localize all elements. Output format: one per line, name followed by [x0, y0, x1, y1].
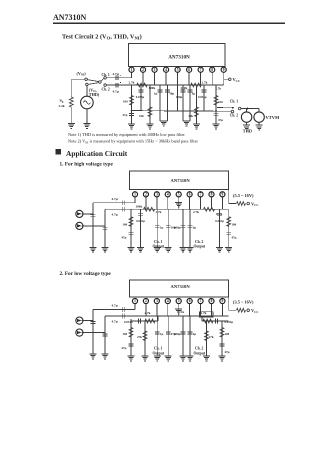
svg-text:2: 2 [145, 193, 147, 197]
svg-text:4.7μ: 4.7μ [112, 304, 118, 308]
svg-text:10k: 10k [188, 114, 193, 118]
svg-text:1μ: 1μ [193, 332, 197, 336]
svg-text:1k: 1k [181, 310, 185, 314]
svg-text:2.7k: 2.7k [145, 311, 151, 315]
svg-text:3: 3 [156, 193, 158, 197]
svg-text:Test Circuit 2 (VO, THD, VNI): Test Circuit 2 (VO, THD, VNI) [62, 33, 142, 40]
svg-text:Ch. 2: Ch. 2 [195, 240, 204, 244]
svg-text:0.033μ: 0.033μ [136, 219, 145, 223]
svg-text:VCC: VCC [251, 201, 259, 207]
svg-text:Ch. 1: Ch. 1 [154, 347, 163, 351]
svg-text:2.7k: 2.7k [202, 80, 208, 84]
svg-text:AN7310N: AN7310N [171, 284, 191, 289]
svg-text:3: 3 [156, 299, 158, 303]
svg-text:4.7μ: 4.7μ [113, 89, 119, 93]
svg-text:6: 6 [189, 299, 191, 303]
svg-text:Ch. 1: Ch. 1 [154, 240, 163, 244]
svg-text:4: 4 [165, 68, 167, 72]
svg-text:4.7μ: 4.7μ [112, 213, 118, 217]
svg-text:Rg: Rg [60, 99, 64, 104]
svg-text:100μ: 100μ [174, 332, 181, 336]
svg-text:(5.5 ~ 16V): (5.5 ~ 16V) [233, 193, 254, 198]
svg-text:100: 100 [218, 100, 223, 104]
svg-text:100k: 100k [136, 204, 143, 208]
svg-text:8: 8 [211, 68, 213, 72]
svg-text:1μ: 1μ [160, 225, 164, 229]
svg-text:4: 4 [167, 193, 169, 197]
svg-text:7: 7 [200, 68, 202, 72]
svg-text:100: 100 [225, 332, 230, 336]
svg-text:1μ: 1μ [192, 92, 196, 96]
svg-text:VTVM: VTVM [266, 115, 281, 120]
svg-text:0.033μ: 0.033μ [136, 95, 145, 99]
svg-text:THD: THD [243, 128, 252, 133]
svg-text:47μ: 47μ [122, 235, 127, 239]
svg-text:100k: 100k [149, 86, 156, 90]
svg-text:0.033μ: 0.033μ [225, 320, 234, 324]
svg-text:6: 6 [188, 68, 190, 72]
svg-text:4.7μ: 4.7μ [112, 319, 118, 323]
svg-text:Ch. 2: Ch. 2 [102, 88, 110, 92]
svg-text:1: 1 [134, 299, 136, 303]
svg-text:47μ: 47μ [122, 346, 127, 350]
svg-text:10k: 10k [139, 114, 144, 118]
svg-text:0.033μ: 0.033μ [124, 320, 133, 324]
svg-text:9: 9 [223, 68, 225, 72]
svg-text:Application Circuit: Application Circuit [66, 149, 128, 158]
svg-text:4.7μ: 4.7μ [113, 72, 119, 76]
svg-text:100μ: 100μ [176, 95, 183, 99]
svg-text:100: 100 [123, 222, 128, 226]
svg-text:2.7k: 2.7k [193, 210, 199, 214]
svg-text:6: 6 [189, 193, 191, 197]
svg-text:47μ: 47μ [218, 118, 223, 122]
svg-text:(3.5 ~ 16V): (3.5 ~ 16V) [233, 300, 254, 305]
svg-text:Output: Output [153, 245, 165, 249]
svg-text:2.7k: 2.7k [215, 86, 221, 90]
svg-text:0.033μ: 0.033μ [198, 95, 207, 99]
svg-text:Ch. 1: Ch. 1 [102, 73, 110, 77]
svg-text:47μ: 47μ [232, 235, 237, 239]
svg-text:AN7310N: AN7310N [171, 178, 191, 183]
svg-text:5: 5 [178, 193, 180, 197]
svg-text:1μ: 1μ [154, 92, 158, 96]
svg-text:100: 100 [123, 100, 128, 104]
svg-text:VCC: VCC [233, 77, 241, 83]
svg-text:Output: Output [194, 351, 206, 355]
svg-text:4.7μ: 4.7μ [112, 197, 118, 201]
svg-text:100μ: 100μ [174, 225, 181, 229]
svg-text:5: 5 [177, 68, 179, 72]
svg-text:1. For high voltage type: 1. For high voltage type [60, 161, 114, 167]
svg-text:VCC: VCC [251, 308, 259, 314]
svg-text:1: 1 [131, 68, 133, 72]
svg-text:Output: Output [153, 351, 165, 355]
svg-text:2.2k: 2.2k [59, 104, 65, 108]
svg-text:THD): THD) [89, 92, 100, 97]
svg-text:Note 2) VNI is measured by eq: Note 2) VNI is measured by equipment wit… [68, 139, 199, 145]
svg-text:100: 100 [123, 332, 128, 336]
svg-text:1μ: 1μ [160, 332, 164, 336]
svg-text:2.7k: 2.7k [129, 80, 135, 84]
svg-text:1: 1 [134, 193, 136, 197]
svg-text:3: 3 [154, 68, 156, 72]
svg-text:2: 2 [145, 299, 147, 303]
svg-text:100: 100 [232, 222, 237, 226]
svg-text:AN7310N: AN7310N [168, 55, 190, 61]
svg-text:2.7k: 2.7k [156, 210, 162, 214]
svg-text:1μ: 1μ [193, 225, 197, 229]
svg-text:(VNI): (VNI) [77, 71, 87, 77]
svg-text:Note 1) THD is measured by eq: Note 1) THD is measured by equipment wit… [68, 132, 185, 137]
svg-text:47μ: 47μ [225, 350, 230, 354]
svg-text:Ch. 2: Ch. 2 [230, 113, 238, 117]
svg-text:27k: 27k [137, 335, 142, 339]
svg-text:8: 8 [211, 193, 213, 197]
svg-text:2: 2 [142, 68, 144, 72]
svg-text:8: 8 [211, 299, 213, 303]
svg-text:10μ: 10μ [169, 92, 174, 96]
svg-text:9: 9 [222, 193, 224, 197]
svg-text:AN7310N: AN7310N [53, 13, 87, 22]
svg-text:Output: Output [194, 245, 206, 249]
svg-text:0.033μ: 0.033μ [215, 219, 224, 223]
svg-text:Ch. 1: Ch. 1 [230, 99, 238, 103]
svg-text:7: 7 [200, 193, 202, 197]
svg-text:2. For low voltage type: 2. For low voltage type [60, 271, 112, 277]
svg-text:27k: 27k [209, 335, 214, 339]
svg-text:5: 5 [178, 299, 180, 303]
svg-text:4: 4 [167, 299, 169, 303]
svg-text:Ch. 2: Ch. 2 [195, 347, 204, 351]
svg-text:9: 9 [222, 299, 224, 303]
svg-text:100k: 100k [181, 86, 188, 90]
svg-text:7: 7 [200, 299, 202, 303]
svg-text:47μ: 47μ [123, 113, 128, 117]
